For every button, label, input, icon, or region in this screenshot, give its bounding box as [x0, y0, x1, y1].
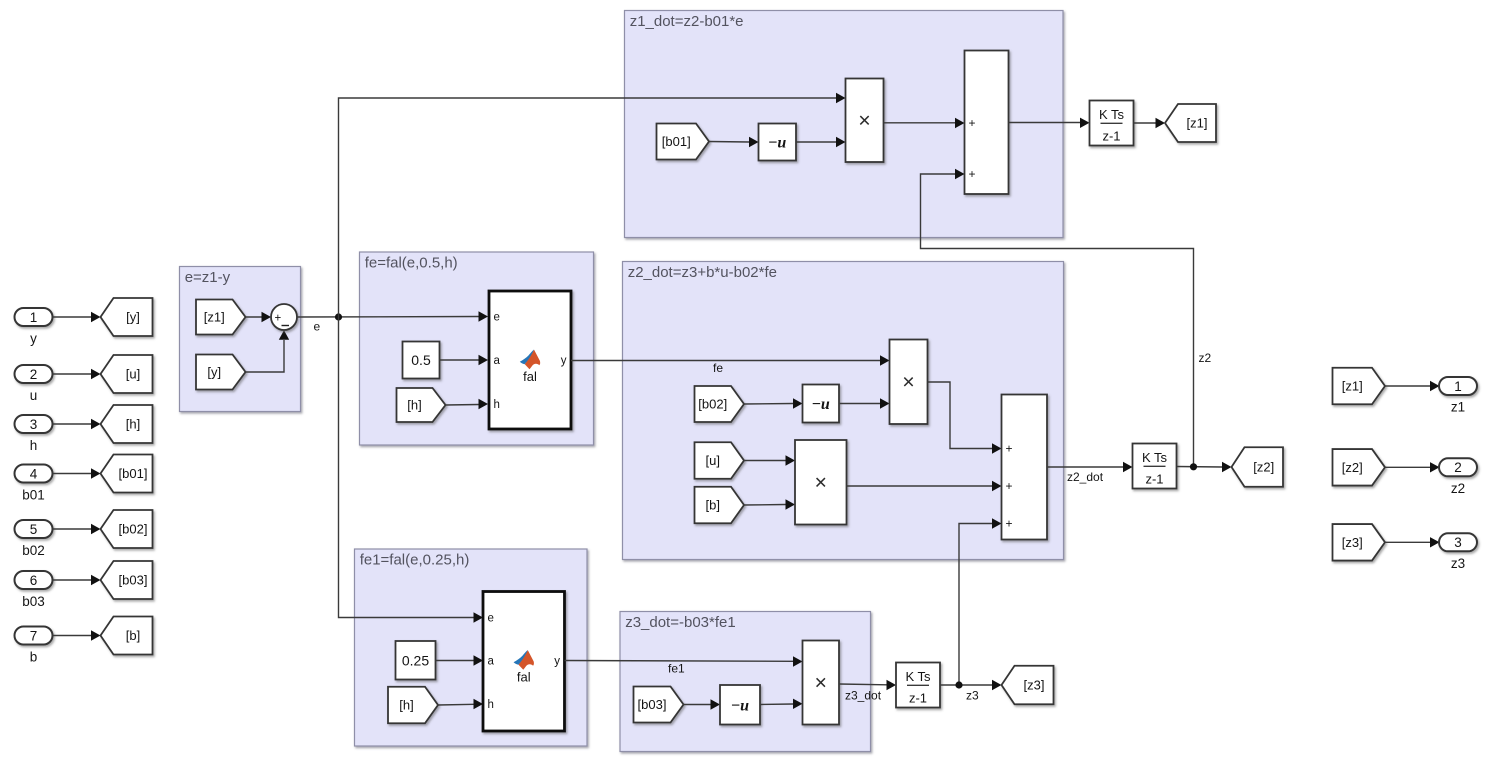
arrowhead — [992, 481, 1002, 491]
svg-text:z3: z3 — [966, 689, 979, 703]
svg-text:[u]: [u] — [126, 367, 140, 382]
svg-text:1: 1 — [1454, 379, 1462, 394]
wire integrator z3 to Goto [z3] — [940, 684, 992, 686]
svg-text:[z2]: [z2] — [1342, 460, 1363, 475]
wire z2_dot to integrator z2 — [1047, 466, 1123, 468]
annotation area fe=fal(e,0.5,h) — [360, 252, 594, 445]
arrowhead — [749, 137, 759, 147]
svg-text:z2: z2 — [1199, 351, 1212, 365]
svg-text:3: 3 — [1454, 535, 1462, 550]
wire e branch up to Product1 — [339, 98, 837, 317]
arrowhead — [474, 655, 484, 665]
svg-text:−u: −u — [768, 135, 786, 152]
svg-text:z3_dot: z3_dot — [845, 689, 882, 703]
constant 0.5 — [403, 342, 440, 379]
arrowhead — [992, 443, 1002, 453]
svg-text:h: h — [494, 399, 500, 411]
svg-text:[b03]: [b03] — [119, 573, 148, 588]
svg-text:[h]: [h] — [407, 398, 421, 413]
arrowhead — [479, 311, 489, 321]
wire Product1 to Sum2 — [884, 122, 956, 124]
wire [z2] to output port 2 — [1385, 466, 1430, 468]
label b02 — [22, 543, 45, 558]
svg-text:[z1]: [z1] — [204, 310, 225, 325]
arrowhead — [786, 499, 796, 509]
signal label fe — [713, 361, 723, 375]
svg-text:3: 3 — [30, 417, 38, 432]
svg-text:+: + — [274, 312, 281, 324]
arrowhead — [955, 169, 965, 179]
label b03 — [22, 594, 45, 609]
svg-text:4: 4 — [30, 466, 38, 481]
svg-text:[b]: [b] — [706, 498, 720, 513]
svg-text:[z3]: [z3] — [1024, 678, 1045, 693]
svg-text:6: 6 — [30, 573, 38, 588]
arrowhead — [786, 455, 796, 465]
svg-text:K Ts: K Ts — [905, 669, 931, 684]
arrowhead — [91, 575, 101, 585]
svg-text:z-1: z-1 — [1102, 129, 1120, 144]
arrowhead — [479, 355, 489, 365]
arrowhead — [1080, 118, 1090, 128]
wire z2 feedback to Sum2 — [921, 174, 1194, 467]
svg-text:[h]: [h] — [399, 698, 413, 713]
output port 2 (z2) — [1439, 458, 1477, 476]
annotation area z1_dot=z2-b01*e — [625, 11, 1064, 238]
svg-text:z2_dot: z2_dot — [1067, 470, 1104, 484]
svg-text:[b02]: [b02] — [698, 397, 727, 412]
annotation area e=z1-y — [180, 267, 301, 412]
svg-text:z3: z3 — [1451, 556, 1465, 571]
input port 5 (b02) — [15, 520, 53, 538]
svg-text:a: a — [488, 656, 495, 668]
svg-text:z-1: z-1 — [909, 691, 927, 706]
Goto tag [h] — [101, 405, 153, 443]
arrowhead — [992, 680, 1002, 690]
wire z3 feedback to Sum3 — [959, 524, 992, 686]
wire 0.25 to fal1 a — [436, 660, 475, 662]
svg-text:z-1: z-1 — [1145, 472, 1163, 487]
svg-text:y: y — [554, 656, 560, 668]
constant 0.25 — [396, 641, 436, 680]
wire [h] to fal1 h — [438, 703, 474, 706]
junction node z3 — [955, 681, 962, 688]
product b02*fe — [890, 340, 928, 425]
svg-text:7: 7 — [30, 628, 38, 643]
arrowhead — [474, 699, 484, 709]
svg-text:[h]: [h] — [126, 417, 140, 432]
svg-text:e: e — [494, 312, 500, 324]
annotation area z2_dot=z3+b*u-b02*fe — [623, 262, 1064, 560]
From tag [y] (error calc) — [196, 355, 246, 390]
svg-text:0.5: 0.5 — [411, 352, 431, 368]
Goto tag [y] — [101, 298, 153, 336]
Goto tag [b01] — [101, 455, 153, 493]
svg-text:+: + — [1005, 442, 1012, 456]
svg-text:−u: −u — [812, 396, 830, 413]
svg-text:fe: fe — [713, 361, 723, 375]
label u — [30, 388, 38, 403]
arrowhead — [91, 468, 101, 478]
svg-text:h: h — [30, 438, 38, 453]
Goto tag [z3] — [1002, 666, 1054, 705]
Goto tag [b] — [101, 617, 153, 655]
wire integrator z2 to Goto [z2] — [1177, 466, 1222, 469]
sum z1_dot (z2 - b01*e) — [965, 51, 1009, 195]
Goto tag [b02] — [101, 510, 153, 548]
From tag [b03] — [634, 687, 684, 723]
svg-text:fe1: fe1 — [668, 662, 685, 676]
svg-text:z2: z2 — [1451, 481, 1465, 496]
svg-text:1: 1 — [30, 310, 38, 325]
arrowhead — [793, 398, 803, 408]
svg-text:b02: b02 — [22, 543, 45, 558]
annotation area z3_dot=-b03*fe1 — [620, 612, 871, 752]
wire Product4 to integrator z3 — [839, 683, 887, 686]
wire e branch down to fal1 (fe1) — [339, 317, 475, 618]
svg-text:+: + — [968, 116, 975, 130]
wire [y] to Sum1 bottom — [246, 340, 285, 372]
unary minus -u (b01) — [759, 124, 797, 161]
discrete integrator K Ts/(z-1) (z2) — [1133, 444, 1177, 489]
svg-text:b01: b01 — [22, 488, 45, 503]
svg-text:y: y — [30, 331, 37, 346]
From tag [h] (fe1) — [388, 687, 438, 724]
junction node z2 — [1190, 463, 1197, 470]
arrowhead — [91, 369, 101, 379]
svg-text:a: a — [494, 355, 501, 367]
svg-text:fe=fal(e,0.5,h): fe=fal(e,0.5,h) — [365, 254, 458, 271]
From tag [b01] — [657, 124, 710, 160]
svg-text:[b01]: [b01] — [662, 134, 691, 149]
wire -u to Product1 — [796, 141, 837, 143]
svg-text:u: u — [30, 388, 38, 403]
arrowhead — [91, 524, 101, 534]
wire integrator to Goto [z1] — [1134, 122, 1156, 124]
discrete integrator K Ts/(z-1) (z3) — [896, 663, 940, 708]
arrowhead — [793, 699, 803, 709]
MATLAB Function fal (fe) — [489, 291, 571, 429]
discrete integrator K Ts/(z-1) (z1) — [1090, 101, 1134, 146]
input port 4 (b01) — [15, 465, 53, 483]
arrowhead — [262, 312, 272, 322]
svg-text:[z3]: [z3] — [1342, 535, 1363, 550]
svg-text:b: b — [30, 650, 38, 665]
product b01*e — [846, 79, 884, 163]
svg-text:5: 5 — [30, 522, 38, 537]
input port 2 (u) — [15, 365, 53, 383]
wire fe from fal to Product2 — [571, 360, 881, 362]
svg-text:[y]: [y] — [207, 365, 221, 380]
arrowhead — [1430, 381, 1440, 391]
wire [z1] to Sum1 — [246, 316, 263, 318]
signal label e — [314, 320, 321, 334]
wire [b02] to UnaryMinus2 — [744, 403, 793, 406]
arrowhead — [836, 93, 846, 103]
svg-text:z1: z1 — [1451, 400, 1465, 415]
svg-text:z1_dot=z2-b01*e: z1_dot=z2-b01*e — [630, 13, 744, 30]
arrowhead — [91, 419, 101, 429]
svg-text:e: e — [488, 613, 494, 625]
wire [b] to Product3 — [744, 504, 786, 507]
wire [u] to Product3 — [744, 460, 786, 462]
arrowhead — [711, 699, 721, 709]
wire [b01] to UnaryMinus1 — [709, 141, 750, 144]
label z2 — [1451, 481, 1465, 496]
MATLAB Function fal (fe1) — [483, 592, 565, 732]
From tag [z1] (error calc) — [196, 300, 246, 335]
Goto tag [z2] — [1232, 447, 1284, 487]
From tag [z1] (output) — [1333, 368, 1386, 405]
svg-text:fe1=fal(e,0.25,h): fe1=fal(e,0.25,h) — [360, 551, 470, 568]
svg-text:2: 2 — [1454, 460, 1462, 475]
svg-text:b03: b03 — [22, 594, 45, 609]
sum block (z1 - y) — [271, 304, 297, 330]
svg-text:2: 2 — [30, 367, 38, 382]
unary minus -u (b03) — [720, 685, 760, 725]
svg-text:[u]: [u] — [706, 453, 720, 468]
product b03*fe1 — [803, 641, 840, 725]
wire Product3 to Sum3 — [847, 485, 993, 487]
From tag [b02] — [695, 386, 745, 422]
output port 3 (z3) — [1439, 533, 1477, 551]
From tag [z2] (output) — [1333, 449, 1386, 486]
svg-text:fal: fal — [523, 369, 537, 384]
signal label z3_dot — [845, 689, 882, 703]
wire port 7 to Goto [b] — [53, 635, 92, 637]
svg-text:z3_dot=-b03*fe1: z3_dot=-b03*fe1 — [625, 614, 736, 631]
From tag [z3] (output) — [1333, 524, 1386, 561]
svg-text:z2_dot=z3+b*u-b02*fe: z2_dot=z3+b*u-b02*fe — [628, 264, 777, 281]
wire -u to Product2 — [839, 403, 881, 405]
arrowhead — [992, 518, 1002, 528]
svg-text:[b03]: [b03] — [638, 697, 667, 712]
svg-text:fal: fal — [517, 670, 531, 685]
label b — [30, 650, 38, 665]
svg-text:e=z1-y: e=z1-y — [185, 269, 231, 286]
svg-text:K Ts: K Ts — [1099, 107, 1125, 122]
svg-text:[y]: [y] — [126, 310, 140, 325]
arrowhead — [479, 399, 489, 409]
wire port 1 to Goto [y] — [53, 316, 92, 318]
arrowhead — [91, 630, 101, 640]
wire Product2 to Sum3 — [928, 382, 993, 449]
label b01 — [22, 488, 45, 503]
input port 7 (b) — [15, 627, 53, 645]
sum z2_dot (z3 + b*u - b02*fe) — [1002, 395, 1048, 540]
arrowhead — [880, 355, 890, 365]
signal label z2 — [1199, 351, 1212, 365]
wire fe1 from fal1 to Product4 — [565, 660, 794, 663]
wire [h] to fal h — [446, 404, 480, 407]
wire [b03] to UnaryMinus3 — [684, 704, 711, 706]
wire e from Sum1 to fal (fe) — [297, 316, 479, 319]
label z3 — [1451, 556, 1465, 571]
label z1 — [1451, 400, 1465, 415]
output port 1 (z1) — [1439, 377, 1477, 395]
arrowhead — [1430, 537, 1440, 547]
svg-text:+: + — [968, 167, 975, 181]
arrowhead — [1222, 462, 1232, 472]
From tag [u] — [695, 442, 745, 479]
svg-text:K Ts: K Ts — [1142, 450, 1168, 465]
label y — [30, 331, 37, 346]
arrowhead — [955, 118, 965, 128]
input port 1 (y) — [15, 308, 53, 326]
arrowhead — [474, 612, 484, 622]
input port 6 (b03) — [15, 571, 53, 589]
arrowhead — [836, 137, 846, 147]
arrowhead — [1430, 462, 1440, 472]
unary minus -u (b02) — [803, 385, 840, 423]
From tag [h] (fe) — [397, 388, 446, 422]
From tag [b] — [695, 487, 745, 524]
wire port 3 to Goto [h] — [53, 423, 92, 425]
wire [z3] to output port 3 — [1385, 541, 1430, 543]
svg-text:[b]: [b] — [126, 628, 140, 643]
svg-text:0.25: 0.25 — [402, 652, 429, 668]
svg-text:y: y — [561, 355, 567, 367]
arrowhead — [880, 398, 890, 408]
wire Sum2 to integrator z1 — [1009, 122, 1081, 124]
wire port 2 to Goto [u] — [53, 373, 92, 375]
arrowhead — [1123, 462, 1133, 472]
annotation area fe1=fal(e,0.25,h) — [355, 549, 588, 746]
svg-text:h: h — [488, 699, 494, 711]
arrowhead — [793, 656, 803, 666]
wire port 4 to Goto [b01] — [53, 473, 92, 475]
svg-text:[z1]: [z1] — [1342, 379, 1363, 394]
svg-text:+: + — [1005, 517, 1012, 531]
junction node e — [335, 313, 342, 320]
Goto tag [z1] — [1165, 104, 1216, 142]
arrowhead — [887, 680, 897, 690]
svg-text:[z2]: [z2] — [1253, 460, 1274, 475]
wire 0.5 to fal a — [440, 359, 480, 361]
signal label z3 — [966, 689, 979, 703]
input port 3 (h) — [15, 415, 53, 433]
Goto tag [u] — [101, 355, 153, 393]
signal label fe1 — [668, 662, 685, 676]
product b*u — [795, 440, 847, 525]
wire port 5 to Goto [b02] — [53, 528, 92, 530]
label h — [30, 438, 38, 453]
svg-text:e: e — [314, 320, 321, 334]
svg-text:[z1]: [z1] — [1187, 116, 1208, 131]
wire port 6 to Goto [b03] — [53, 579, 92, 581]
wire [z1] to output port 1 — [1385, 385, 1430, 387]
arrowhead — [1156, 118, 1166, 128]
wire -u to Product4 — [760, 703, 793, 706]
Goto tag [b03] — [101, 561, 153, 599]
svg-text:[b02]: [b02] — [119, 522, 148, 537]
arrowhead — [91, 312, 101, 322]
svg-text:−u: −u — [731, 697, 749, 714]
svg-text:[b01]: [b01] — [119, 466, 148, 481]
svg-text:+: + — [1005, 479, 1012, 493]
signal label z2_dot — [1067, 470, 1104, 484]
arrowhead — [279, 330, 289, 340]
